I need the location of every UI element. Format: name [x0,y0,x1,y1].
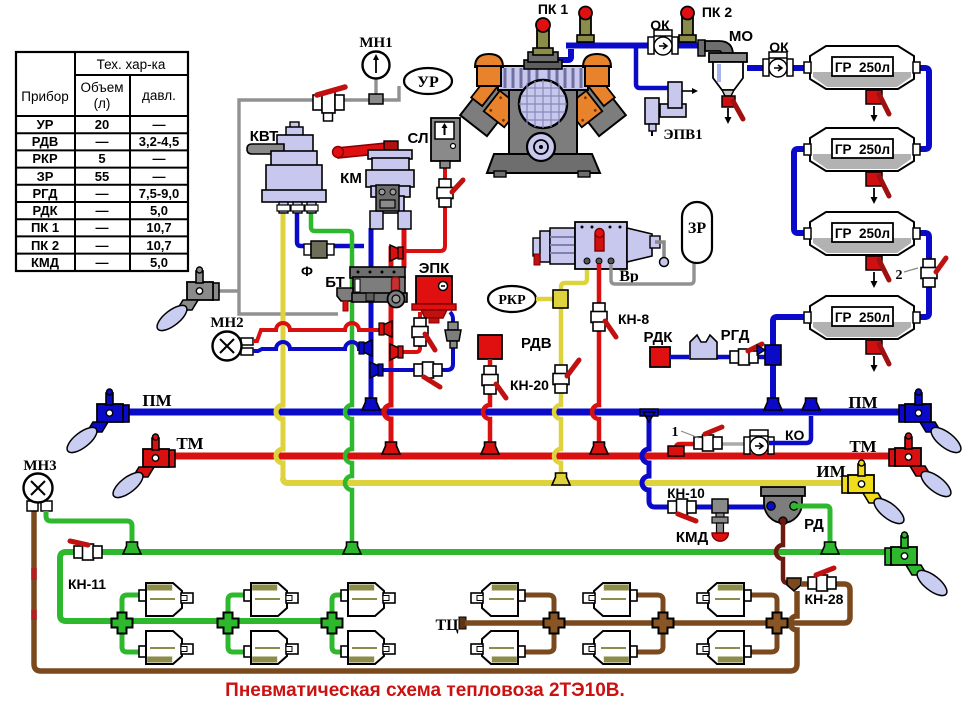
table: technical characteristics [16,52,188,271]
svg-text:РДК: РДК [644,329,674,346]
driver brake valve КМ [333,141,415,229]
junction cross brown 4 [544,613,565,634]
sleeve on ЭПК blue line [445,322,461,348]
svg-text:10,7: 10,7 [146,238,171,253]
ЭПВ1 electro-pneumatic vent valve [645,82,703,143]
fitting blue on ПМ at КН-10 branch [640,409,658,422]
valve 2 on reservoir link [896,258,947,287]
fitting yellow on ИМ main [552,473,570,485]
valve КН-11 on green main [68,541,106,592]
wire: dark red РД drain down to tee [776,523,792,583]
svg-text:РКР: РКР [498,293,526,308]
safety valve ПК1 on pipe [577,7,594,43]
reservoir ЗР [682,202,712,263]
svg-text:5: 5 [98,151,105,166]
junction cross brown 6 [767,613,788,634]
wire: yellow РКР riser down to ИМ [554,306,561,477]
svg-text:—: — [96,134,109,149]
svg-text:ТМ: ТМ [849,437,876,456]
brake valve КВТ [247,122,326,213]
fitting red tee ЭПК joint [390,344,403,360]
svg-text:РДВ: РДВ [32,134,59,149]
fitting red tee СЛ joint [390,245,403,261]
svg-text:—: — [96,238,109,253]
reservoir УР (equalizing) [404,68,452,94]
svg-text:20: 20 [95,117,109,132]
brake cylinder ТЦ 1 top [139,583,193,616]
svg-text:УР: УР [417,74,439,91]
svg-text:10,7: 10,7 [146,220,171,235]
fitting green on main at КВТ riser [343,542,361,554]
wire: blue link ГР2 left to ГР3 left [794,149,806,233]
wire: red Вр riser to ТМ through КН-8 [592,264,599,452]
svg-text:ПК 1: ПК 1 [31,220,59,235]
brake equipment block БТ [325,267,407,311]
svg-text:Ф: Ф [301,263,313,279]
end cock green line right with hose [885,532,951,600]
label ПК 2 [702,4,732,20]
svg-text:Прибор: Прибор [21,89,69,104]
wire: brown КН-28 return to cylinder manifold [786,584,850,623]
fitting blue on ПМ at БТ riser [362,398,380,410]
wire: brown long equalizing line МН3 to РД tee [34,510,797,671]
brake cylinder ТЦ 2 top [244,583,298,616]
junction cross brown 5 [653,613,674,634]
end cock ИМ right with hose [842,460,908,528]
svg-text:МН3: МН3 [23,458,56,474]
pressure switch РДК [644,329,674,367]
svg-text:—: — [153,151,166,166]
svg-text:—: — [96,255,109,270]
fitting brown tee under РД [787,578,801,591]
svg-text:ЗР: ЗР [688,220,706,237]
wire: yellow line КВТ down to ИМ main [276,210,283,478]
brake cylinder ТЦ 2 bottom [244,631,298,664]
svg-text:—: — [153,117,166,132]
wire: grey link valve 1 to КО [720,442,748,446]
wire: blue КО up to ПМ [769,416,811,443]
safety valve ПК2 [679,7,696,43]
svg-text:МО: МО [729,28,753,45]
junction cross green 1 [112,613,133,634]
svg-text:—: — [96,220,109,235]
recorder СЛ [408,118,460,168]
fitting green on main at РД riser [821,542,839,554]
wire: blue main feed ГР4 left down to ПМ [773,317,806,410]
wire: red МН2 to КМ riser [253,323,385,341]
wire: grey stub drain cock to УР riser [214,289,240,292]
svg-text:ПК 2: ПК 2 [31,238,59,253]
gauge МН2 [210,315,253,361]
fitting green on main at МН3 feed [123,542,141,554]
svg-text:УР: УР [37,117,54,132]
drain cock under ГР3 [866,256,889,288]
brake cylinder ТЦ 4 top [471,583,525,616]
svg-text:КН-8: КН-8 [618,311,649,327]
svg-text:РДВ: РДВ [521,335,552,352]
fitting red elbow at ТМ for КО branch [668,446,684,456]
wire: red stub ТМ up to valve 1 [676,444,696,452]
svg-text:РКР: РКР [32,151,58,166]
wire: green feeds cross3 to cylinders column 3 [332,595,342,652]
wire: red РДВ riser to ТМ [483,359,490,452]
valve КН-28 [805,568,844,607]
brake cylinder ТЦ 6 top [697,583,751,616]
svg-text:КМД: КМД [31,255,60,270]
fitting red on ТМ at РДВ riser [481,442,499,454]
fitting blue tee on tank riser at РГД joint [757,345,781,365]
wire: blue branch to ЭПВ1 [636,48,668,88]
valve on РГД line [730,344,762,365]
wire: blue discharge pipe compressor to МО [556,46,704,61]
brake cylinder ТЦ 1 bottom [139,631,193,664]
wire: brown feeds cross6 from cylinders column 6 [751,595,777,652]
wire: blue МН2 to БТ riser [253,342,364,351]
valve ЭПК (electro-pneumatic) [412,260,456,323]
svg-text:РД: РД [804,516,824,533]
svg-text:—: — [153,169,166,184]
svg-text:КН-11: КН-11 [68,576,106,592]
fitting blue tee МН2 joint [359,340,372,356]
svg-text:МН1: МН1 [359,35,392,51]
brake cylinder ТЦ 3 bottom [341,631,395,664]
wire: blue link ГР3 right to ГР4 right through valve 2 [914,233,929,317]
valve КН-20 under РДВ [482,366,549,398]
svg-text:КН-20: КН-20 [510,377,549,393]
svg-text:КВТ: КВТ [250,128,279,145]
wire: green РД to green main [797,506,830,548]
end cock ТМ right with hose [889,433,955,501]
wire: brown cylinder manifold [459,617,777,629]
svg-text:МН2: МН2 [210,315,243,331]
fitting blue on ПМ at КО riser [802,398,820,410]
label ПК 1 [538,1,568,17]
check valve ОК (second) [763,39,793,77]
svg-text:КМД: КМД [676,529,709,546]
svg-text:КМ: КМ [340,170,362,187]
brake cylinder ТЦ 4 bottom [471,631,525,664]
wire: yellow РКР line to Вр [536,262,587,299]
svg-text:3,2-4,5: 3,2-4,5 [139,134,179,149]
svg-text:ТМ: ТМ [176,434,203,453]
wire: blue ЭПК supply from БТ riser [381,312,453,370]
svg-text:5,0: 5,0 [150,255,168,270]
reservoir ГР3 250л [804,212,920,255]
svg-text:ПК 2: ПК 2 [702,4,732,20]
valve 1 (disconnect) [672,425,723,451]
svg-text:давл.: давл. [142,88,176,103]
wire: red branch СЛ to riser [397,166,445,251]
svg-text:ЗР: ЗР [37,169,54,184]
svg-text:ЭПК: ЭПК [419,260,450,277]
brake cylinder ТЦ 5 top [583,583,637,616]
svg-text:ТЦ: ТЦ [435,617,459,634]
wire: blue pipe МО to ОК2 to ГР1 [747,65,806,71]
svg-text:5,0: 5,0 [150,203,168,218]
fitting red on ТМ at Вр riser [590,442,608,454]
svg-text:7,5-9,0: 7,5-9,0 [139,186,179,201]
wire: green МН3 feed to green main [46,511,132,548]
wire: blue КН-10 line from ПМ to РД [642,419,766,507]
air distributor Вр [533,222,669,285]
gauge МН3 [23,458,56,511]
reservoir ГР1 250л [804,46,920,89]
valve on СЛ line [437,179,463,207]
svg-text:КН-28: КН-28 [805,591,844,607]
svg-text:1: 1 [672,425,679,440]
brake cylinder ТЦ 3 top [341,583,395,616]
wire: blue РДК to РГД to tank riser [670,355,765,360]
svg-text:ЭПВ1: ЭПВ1 [663,127,702,143]
junction cross green 3 [322,613,343,634]
svg-text:БТ: БТ [325,274,345,291]
wire: ТМ brake main (red) [155,434,894,456]
wire: green line КВТ to green main [311,210,352,548]
svg-text:РГД: РГД [33,186,59,201]
svg-text:(л): (л) [94,96,111,111]
relay valve РД [761,487,824,533]
wire: red riser КМ through БТ to ТМ [384,226,404,452]
svg-text:КО: КО [785,427,805,443]
label ТЦ [435,617,459,634]
svg-text:2: 2 [896,268,903,283]
svg-text:Объем: Объем [80,80,123,95]
end cock (drain) with hose near МН2 [153,267,219,335]
wire: green main line [60,552,889,621]
reservoir РКР [488,286,536,312]
wire: blue riser БТ to ПМ [369,228,374,406]
check valve ОК (first) [648,17,678,55]
pressure regulator РГД [690,327,750,359]
wire: green feeds cross2 to cylinders column 2 [228,595,245,652]
svg-text:ПМ: ПМ [848,393,877,412]
svg-text:55: 55 [95,169,109,184]
svg-text:РДК: РДК [32,203,57,218]
wire: red ЭПК drain branch to riser [397,312,420,352]
valve on ЭПК red branch [412,318,435,350]
svg-text:КН-10: КН-10 [667,486,705,501]
junction cross green 2 [218,613,239,634]
wire: ПМ feed main (blue) [110,391,918,412]
fitting blue cross on ПМ at tank riser [764,398,782,410]
wire: grey pipe УР to three-way cock to БТ [239,86,399,314]
fitting blue tee ЭПК supply joint [370,362,383,378]
end cock ПМ left with hose [63,389,129,457]
brake cylinder ТЦ 5 bottom [583,631,637,664]
pressure switch РДВ [478,335,552,359]
end cock ТМ left with hose [109,434,175,502]
drain cock under ГР4 [866,340,889,372]
svg-text:РГД: РГД [721,327,750,344]
svg-text:Тех. хар-ка: Тех. хар-ка [97,57,166,72]
check valve КО [744,427,805,455]
svg-text:ОК: ОК [769,39,789,55]
fitting red tee МН2 joint [379,321,392,337]
safety valve ПК1 on compressor head [533,18,553,55]
compressor К [460,52,626,177]
end cock ПМ right with hose [899,389,965,457]
reservoir ГР2 250л [804,128,920,171]
wire: grey Вр to ЗР [611,262,694,284]
drain valve КМД on КН-10 line [676,499,729,546]
drain cock under ГР2 [866,172,889,204]
wire: brown feeds cross4 from cylinders column 4 [525,595,554,652]
svg-text:—: — [96,186,109,201]
fitting yellow at РКР junction [553,290,568,308]
oil separator МО [698,28,753,124]
svg-text:ОК: ОК [650,17,670,33]
drain cock under ГР1 [866,90,889,122]
brake cylinder ТЦ 6 bottom [697,631,751,664]
svg-text:ПМ: ПМ [142,391,171,410]
three-way cock on УР line [313,87,345,121]
wire: blue link ГР1 right to ГР2 right [914,68,929,149]
caption [225,680,625,701]
valve КН-8 [591,303,649,337]
wire: brown feeds cross5 from cylinders column 5 [637,595,663,652]
valve КН-10 [667,486,705,521]
wire: ИМ auxiliary yellow main [283,462,846,483]
valve on ЭПК blue line [414,362,442,387]
svg-text:Пневматическая схема тепловоза: Пневматическая схема тепловоза 2ТЭ10В. [225,680,625,701]
wire: green feeds cross1 to cylinders column 1 [122,595,140,652]
wire: blue line КВТ through filter Ф to БТ riser [297,210,364,246]
svg-text:ПК 1: ПК 1 [538,1,568,17]
valve КН-20 on yellow riser [553,360,579,393]
reservoir ГР4 250л [804,296,920,339]
fitting red on ТМ at КМ riser [382,442,400,454]
svg-text:—: — [96,203,109,218]
svg-text:СЛ: СЛ [408,130,429,147]
gauge МН1 [359,35,392,104]
filter Ф on КВТ blue line [301,241,334,279]
